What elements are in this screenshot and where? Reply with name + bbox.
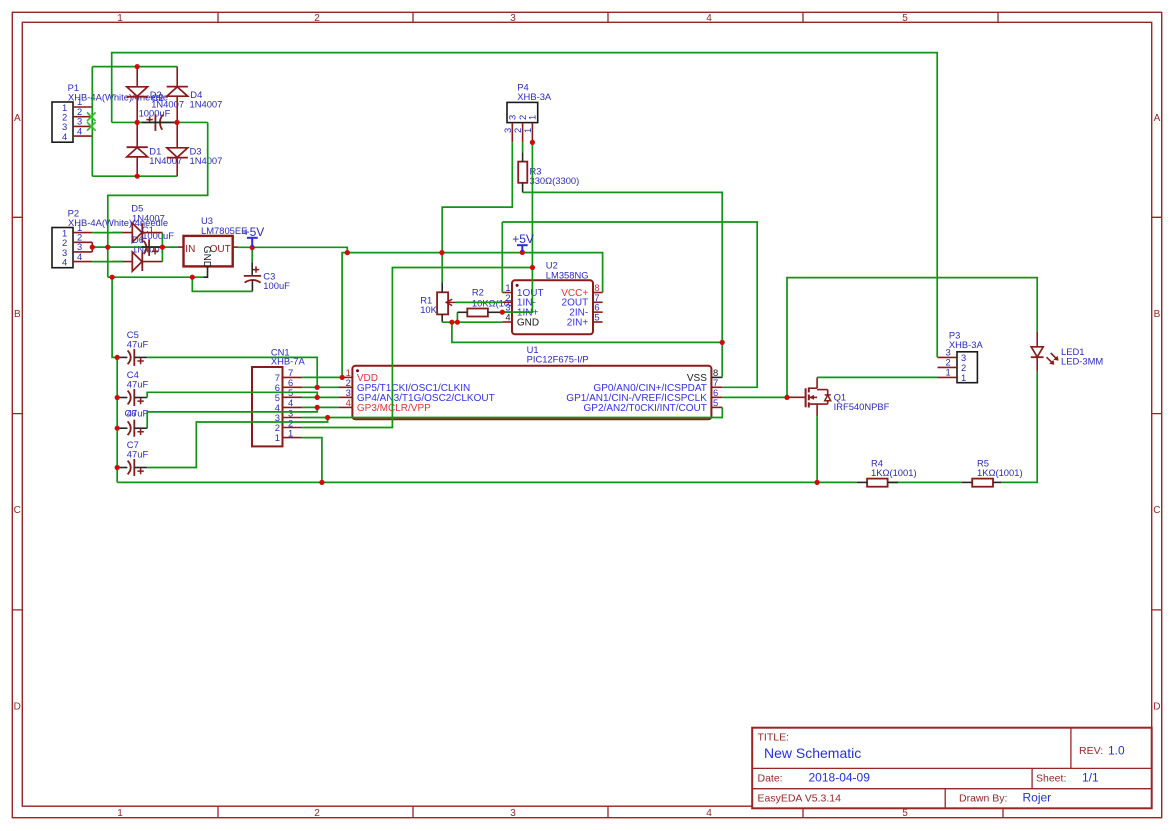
node CN1 pin4 branch [315, 405, 320, 410]
wire D5-D6 outputs to IN row [161, 233, 163, 262]
no-connect X on P1 pin3 [87, 122, 96, 131]
node R1 bottom b [455, 320, 460, 325]
wire LED bottom to R5 [1001, 371, 1037, 482]
node IN row x108 [105, 245, 110, 250]
connector P2 [52, 208, 168, 268]
wire CN1 pin4 to U1 GP3 [302, 406, 338, 408]
connector P1 [52, 82, 168, 142]
svg-text:R2: R2 [472, 287, 484, 298]
wire bridge out right down [108, 122, 208, 277]
svg-text:2018-04-09: 2018-04-09 [809, 771, 871, 785]
svg-text:B: B [1154, 309, 1161, 320]
svg-text:C2: C2 [152, 92, 164, 103]
connector CN1 [252, 347, 306, 447]
node P4 pin1 [530, 140, 535, 145]
wire R3 top green [522, 142, 524, 152]
wire D6 out stub [142, 261, 162, 263]
svg-text:47uF: 47uF [127, 449, 149, 460]
svg-text:GP2/AN2/T0CKI/INT/COUT: GP2/AN2/T0CKI/INT/COUT [584, 403, 707, 414]
node bridge mid right [174, 120, 179, 125]
wire D5 out stub [142, 232, 162, 234]
svg-text:1: 1 [117, 13, 123, 24]
node +5V rail corner [345, 250, 350, 255]
svg-text:B: B [14, 309, 21, 320]
diode lead left column [136, 67, 138, 177]
wire R1 top lead [441, 283, 443, 293]
wire 1OUT to GP0 [502, 222, 757, 387]
svg-text:1/1: 1/1 [1082, 771, 1099, 785]
svg-text:PIC12F675-I/P: PIC12F675-I/P [527, 353, 589, 364]
diode D6 [112, 234, 164, 271]
wire C3 branch [251, 248, 253, 263]
microcontroller U1 [338, 344, 722, 420]
svg-text:1: 1 [961, 372, 966, 383]
no-connect X on P1 pin2 [87, 112, 96, 121]
wire bridge bottom [92, 175, 177, 177]
LED LED1 [1031, 332, 1104, 372]
wire GP1 to Q1 gate [722, 396, 787, 398]
svg-text:10K: 10K [420, 304, 437, 315]
svg-text:+5V: +5V [243, 225, 265, 239]
wire R5 left lead [962, 481, 972, 483]
svg-text:1: 1 [946, 366, 951, 377]
svg-text:LM7805EE: LM7805EE [201, 225, 247, 236]
wire R4 left lead [857, 481, 867, 483]
wire U2 VCC stub link [593, 292, 603, 294]
wire C4 to CN1 pin5 [147, 392, 317, 397]
wire R1 bottom lead [441, 314, 443, 322]
wire ground bottom rail [117, 481, 857, 483]
svg-text:330Ω(3300): 330Ω(3300) [530, 175, 580, 186]
node C6 row [115, 426, 120, 431]
svg-text:GND: GND [517, 317, 539, 328]
title block [752, 728, 1151, 809]
node VDD at U1 pin1 [340, 375, 345, 380]
wire P4 pin3 net to R1 top [442, 142, 512, 282]
diode D2 [127, 87, 184, 110]
wire GND row under U3 [108, 276, 204, 278]
node CN1 pin6 branch [315, 385, 320, 390]
svg-text:D: D [1153, 702, 1160, 713]
wire D5 row [92, 232, 122, 234]
capacitor C7 [117, 439, 148, 476]
svg-text:GP3/MCLR/VPP: GP3/MCLR/VPP [357, 403, 431, 414]
node CN1 pin5 branch [315, 395, 320, 400]
wire P2 jog pins2-3 [91, 242, 93, 252]
wire C6 to CN1 pin4 [147, 407, 317, 428]
svg-text:100uF: 100uF [263, 280, 290, 291]
svg-text:2: 2 [314, 808, 320, 819]
wire bridge mid black segment [142, 121, 175, 123]
wire U3 OUT to +5V rail [233, 246, 238, 248]
wire R3 bottom lead [522, 183, 524, 193]
svg-text:5: 5 [594, 312, 599, 323]
svg-text:A: A [14, 113, 21, 124]
diode D4 [167, 87, 223, 110]
diode D5 [112, 203, 164, 243]
svg-text:4: 4 [505, 312, 510, 323]
wire R3 top lead [522, 152, 524, 161]
svg-text:Date:: Date: [758, 773, 783, 785]
capacitor C1 [142, 224, 174, 256]
resistor R3 [518, 162, 579, 186]
svg-text:EasyEDA V5.3.14: EasyEDA V5.3.14 [758, 793, 842, 805]
resistor R5 [972, 457, 1022, 486]
node +5V rail R1 [439, 250, 444, 255]
wire R4 right lead [888, 481, 898, 483]
capacitor C3 [244, 266, 290, 291]
diode lead right column [176, 67, 178, 177]
svg-text:3: 3 [510, 13, 516, 24]
wire U3 IN row [92, 246, 177, 248]
node VDD branch [530, 265, 535, 270]
wire C3 top lead [251, 262, 253, 275]
wire R3 out to VSS net [523, 192, 723, 377]
node GND rail at VSS [720, 340, 725, 345]
svg-text:D: D [14, 702, 21, 713]
svg-text:1: 1 [275, 432, 280, 443]
svg-text:LM358NG: LM358NG [546, 269, 589, 280]
resistor R4 [867, 457, 916, 486]
node +5V at U3 out [250, 245, 255, 250]
svg-text:4: 4 [62, 131, 67, 142]
wire top rail from bridge mid-left to P3 pin3 [112, 53, 938, 358]
svg-text:+5V: +5V [512, 232, 534, 246]
node Q1 gate [784, 395, 789, 400]
potentiometer R1 [420, 292, 456, 315]
svg-text:4: 4 [77, 125, 82, 136]
svg-text:1KΩ(1001): 1KΩ(1001) [871, 467, 917, 478]
svg-text:C: C [14, 505, 21, 516]
svg-text:Rojer: Rojer [1023, 791, 1052, 805]
node GND row x112 [110, 275, 115, 280]
wire CN1 pin3 to U1 GP2 [302, 407, 722, 417]
resistor R2 [467, 287, 517, 317]
svg-text:XHB-3A: XHB-3A [517, 91, 552, 102]
svg-text:Sheet:: Sheet: [1036, 773, 1066, 785]
svg-text:4: 4 [706, 13, 712, 24]
node +5V symbol 2 [520, 250, 525, 255]
wire CN1 pin1 to ground rail [302, 438, 322, 483]
svg-text:1: 1 [288, 427, 293, 438]
wire R4-R5 link [888, 481, 962, 483]
svg-text:1N4007: 1N4007 [190, 99, 223, 110]
wire C3 gnd return [192, 277, 252, 291]
wire Q1 source to ground rail [816, 416, 818, 482]
svg-text:LED-3MM: LED-3MM [1061, 356, 1103, 367]
node bridge top [135, 64, 140, 69]
svg-text:1N4007: 1N4007 [132, 212, 165, 223]
regulator U3 [177, 215, 247, 268]
power symbol +5V (rail) [512, 232, 534, 252]
wire Q1 drain to P3 pin1 [817, 376, 937, 378]
node Q1 source at rail [815, 480, 820, 485]
wire Q1 gate net to LED top [787, 278, 1037, 398]
node C5 row [115, 355, 120, 360]
svg-text:XHB-3A: XHB-3A [949, 339, 984, 350]
node C4 row [115, 395, 120, 400]
svg-text:1000uF: 1000uF [142, 230, 174, 241]
wire R1 wiper to U2 1IN- [456, 301, 502, 303]
wire P2-caps vertical [112, 277, 117, 482]
svg-text:4: 4 [346, 397, 351, 408]
svg-text:GND: GND [201, 246, 212, 268]
svg-text:47uF: 47uF [127, 407, 149, 418]
wire VDD distribution to CN1 pin2 [302, 268, 532, 428]
node P2 pins 2-3 [90, 245, 95, 250]
svg-text:TITLE:: TITLE: [758, 732, 790, 744]
node R1 bottom a [449, 320, 454, 325]
wire U3 IN row black segment [141, 246, 160, 248]
wire +5V rail [238, 247, 603, 377]
transistor Q1 [787, 377, 890, 416]
svg-text:1: 1 [117, 808, 123, 819]
svg-text:IN: IN [185, 244, 195, 255]
wire C7 to CN1 pin3 [147, 418, 327, 468]
op-amp U2 [502, 260, 602, 335]
wire R5 right lead [993, 481, 1001, 483]
wire GND rail to VSS [452, 322, 722, 342]
capacitor C5 [117, 329, 148, 366]
svg-text:1: 1 [527, 115, 538, 120]
svg-text:5: 5 [902, 13, 908, 24]
node C3 ground [190, 275, 195, 280]
svg-text:4: 4 [706, 808, 712, 819]
svg-text:4: 4 [77, 251, 82, 262]
wire bridge top [92, 66, 177, 68]
svg-text:2: 2 [314, 13, 320, 24]
svg-text:1000uF: 1000uF [139, 107, 171, 118]
svg-text:REV:: REV: [1079, 745, 1103, 757]
wire bridge mid row [112, 121, 208, 123]
svg-text:Drawn By:: Drawn By: [959, 793, 1007, 805]
wire R2 left lead [457, 311, 467, 313]
node CN1 pin3 branch [325, 415, 330, 420]
svg-text:1N4007: 1N4007 [190, 155, 223, 166]
power symbol +5V (U3 out) [243, 225, 265, 247]
diode D1 [127, 146, 183, 166]
diode D3 [167, 146, 223, 166]
wire U3 GND pin [204, 266, 208, 277]
svg-text:C: C [1153, 505, 1160, 516]
wire CN1 pin5 to U1 GP4 [302, 396, 338, 398]
svg-text:New Schematic: New Schematic [764, 745, 861, 761]
node C7 row [115, 465, 120, 470]
node D5-D6 join [160, 245, 165, 250]
svg-text:IRF540NPBF: IRF540NPBF [834, 401, 890, 412]
svg-text:3: 3 [510, 808, 516, 819]
wire CN1 pin6 to U1 GP5 [302, 386, 338, 388]
svg-text:47uF: 47uF [127, 379, 149, 390]
node U2 pin3 [500, 310, 505, 315]
svg-text:47uF: 47uF [127, 339, 149, 350]
wire R2 right lead [488, 311, 502, 313]
svg-text:4: 4 [62, 257, 67, 268]
wire C3 bottom lead [251, 280, 253, 291]
svg-text:2IN+: 2IN+ [567, 317, 589, 328]
svg-text:A: A [1154, 113, 1161, 124]
wire P4 pin1 VDD net [502, 142, 532, 312]
svg-text:5: 5 [713, 397, 718, 408]
svg-text:1KΩ(1001): 1KΩ(1001) [977, 467, 1023, 478]
wire R1 bottom row to U2 GND [442, 321, 502, 323]
svg-text:1: 1 [522, 128, 533, 133]
connector P4 [502, 81, 552, 142]
node bridge mid left [135, 120, 140, 125]
capacitor C4 [117, 369, 148, 406]
node bridge bottom [135, 174, 140, 179]
wire C5 to CN1 pin6 [147, 357, 317, 387]
wire CN1 pin7 to U1 VDD [302, 376, 342, 378]
svg-text:5: 5 [902, 808, 908, 819]
wire bridge AC left vertical [91, 67, 93, 177]
connector P3 [938, 330, 984, 384]
wire D6 row [92, 261, 122, 263]
node ground rail CN1 pin1 [319, 480, 324, 485]
capacitor C6 [117, 407, 148, 436]
svg-text:1.0: 1.0 [1108, 744, 1125, 758]
wire R2 left branch [456, 312, 458, 322]
capacitor C2 (bridge) [139, 92, 171, 131]
